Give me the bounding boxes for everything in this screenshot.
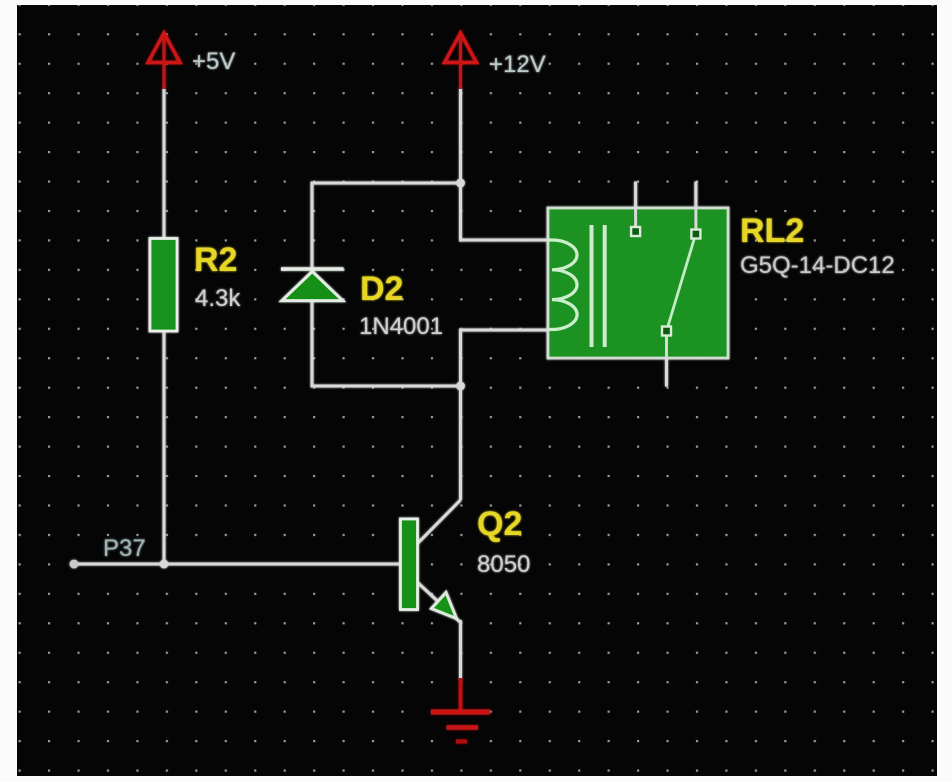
relay core line 2 — [603, 225, 607, 347]
svg-text:+5V: +5V — [192, 48, 235, 75]
wire coil top horizontal — [459, 239, 553, 242]
wire +5V stem to R2 top — [163, 88, 166, 240]
wire collector diagonal — [416, 500, 461, 545]
transistor Q2 emitter arrow — [432, 593, 457, 619]
svg-text:G5Q-14-DC12: G5Q-14-DC12 — [740, 252, 895, 279]
wire emitter diagonal — [416, 581, 460, 622]
svg-text:D2: D2 — [360, 270, 403, 308]
terminal dot P37 — [70, 560, 79, 569]
wire R2 bottom to base junction — [163, 330, 166, 564]
wire D2 bottom horizontal — [312, 385, 462, 388]
svg-text:8050: 8050 — [477, 551, 530, 578]
wire D2 cathode vertical lower — [311, 301, 314, 388]
relay terminal bottom — [662, 327, 671, 336]
relay pin stub bottom — [665, 334, 668, 387]
relay terminal top-left — [631, 227, 640, 236]
wire D2 anode vertical upper — [311, 182, 314, 269]
wire emitter down to ground — [459, 620, 462, 680]
wire D2 top horizontal — [312, 182, 462, 185]
transistor Q2 base bar — [401, 519, 418, 610]
resistor R2 — [150, 239, 177, 332]
svg-text:+12V: +12V — [489, 51, 546, 78]
relay core line 1 — [590, 225, 594, 347]
junction collector / D2 bottom — [456, 382, 465, 391]
svg-text:RL2: RL2 — [740, 212, 804, 250]
wire +12V stem down to coil-top corner — [459, 88, 462, 240]
relay coil — [548, 240, 577, 330]
relay terminal top-right — [691, 230, 700, 239]
ground — [431, 678, 490, 742]
diode D2 — [281, 269, 344, 301]
relay RL2 body — [548, 208, 728, 358]
svg-text:R2: R2 — [194, 241, 237, 279]
relay switch blade — [668, 238, 695, 326]
power arrow +12V — [445, 33, 477, 89]
wire coil bottom down to collector — [459, 330, 462, 500]
svg-text:P37: P37 — [103, 535, 146, 562]
junction base/R2 — [160, 560, 169, 569]
svg-text:Q2: Q2 — [477, 505, 522, 543]
wire coil bottom horizontal — [459, 329, 553, 332]
wire P37 base horizontal — [74, 563, 402, 566]
relay pin stub top-right — [694, 182, 697, 231]
svg-text:1N4001: 1N4001 — [359, 313, 443, 340]
relay pin stub top-left — [634, 182, 637, 229]
junction +12V / D2 top — [456, 179, 465, 188]
power arrow +5V — [148, 33, 180, 89]
svg-text:4.3k: 4.3k — [195, 285, 241, 312]
